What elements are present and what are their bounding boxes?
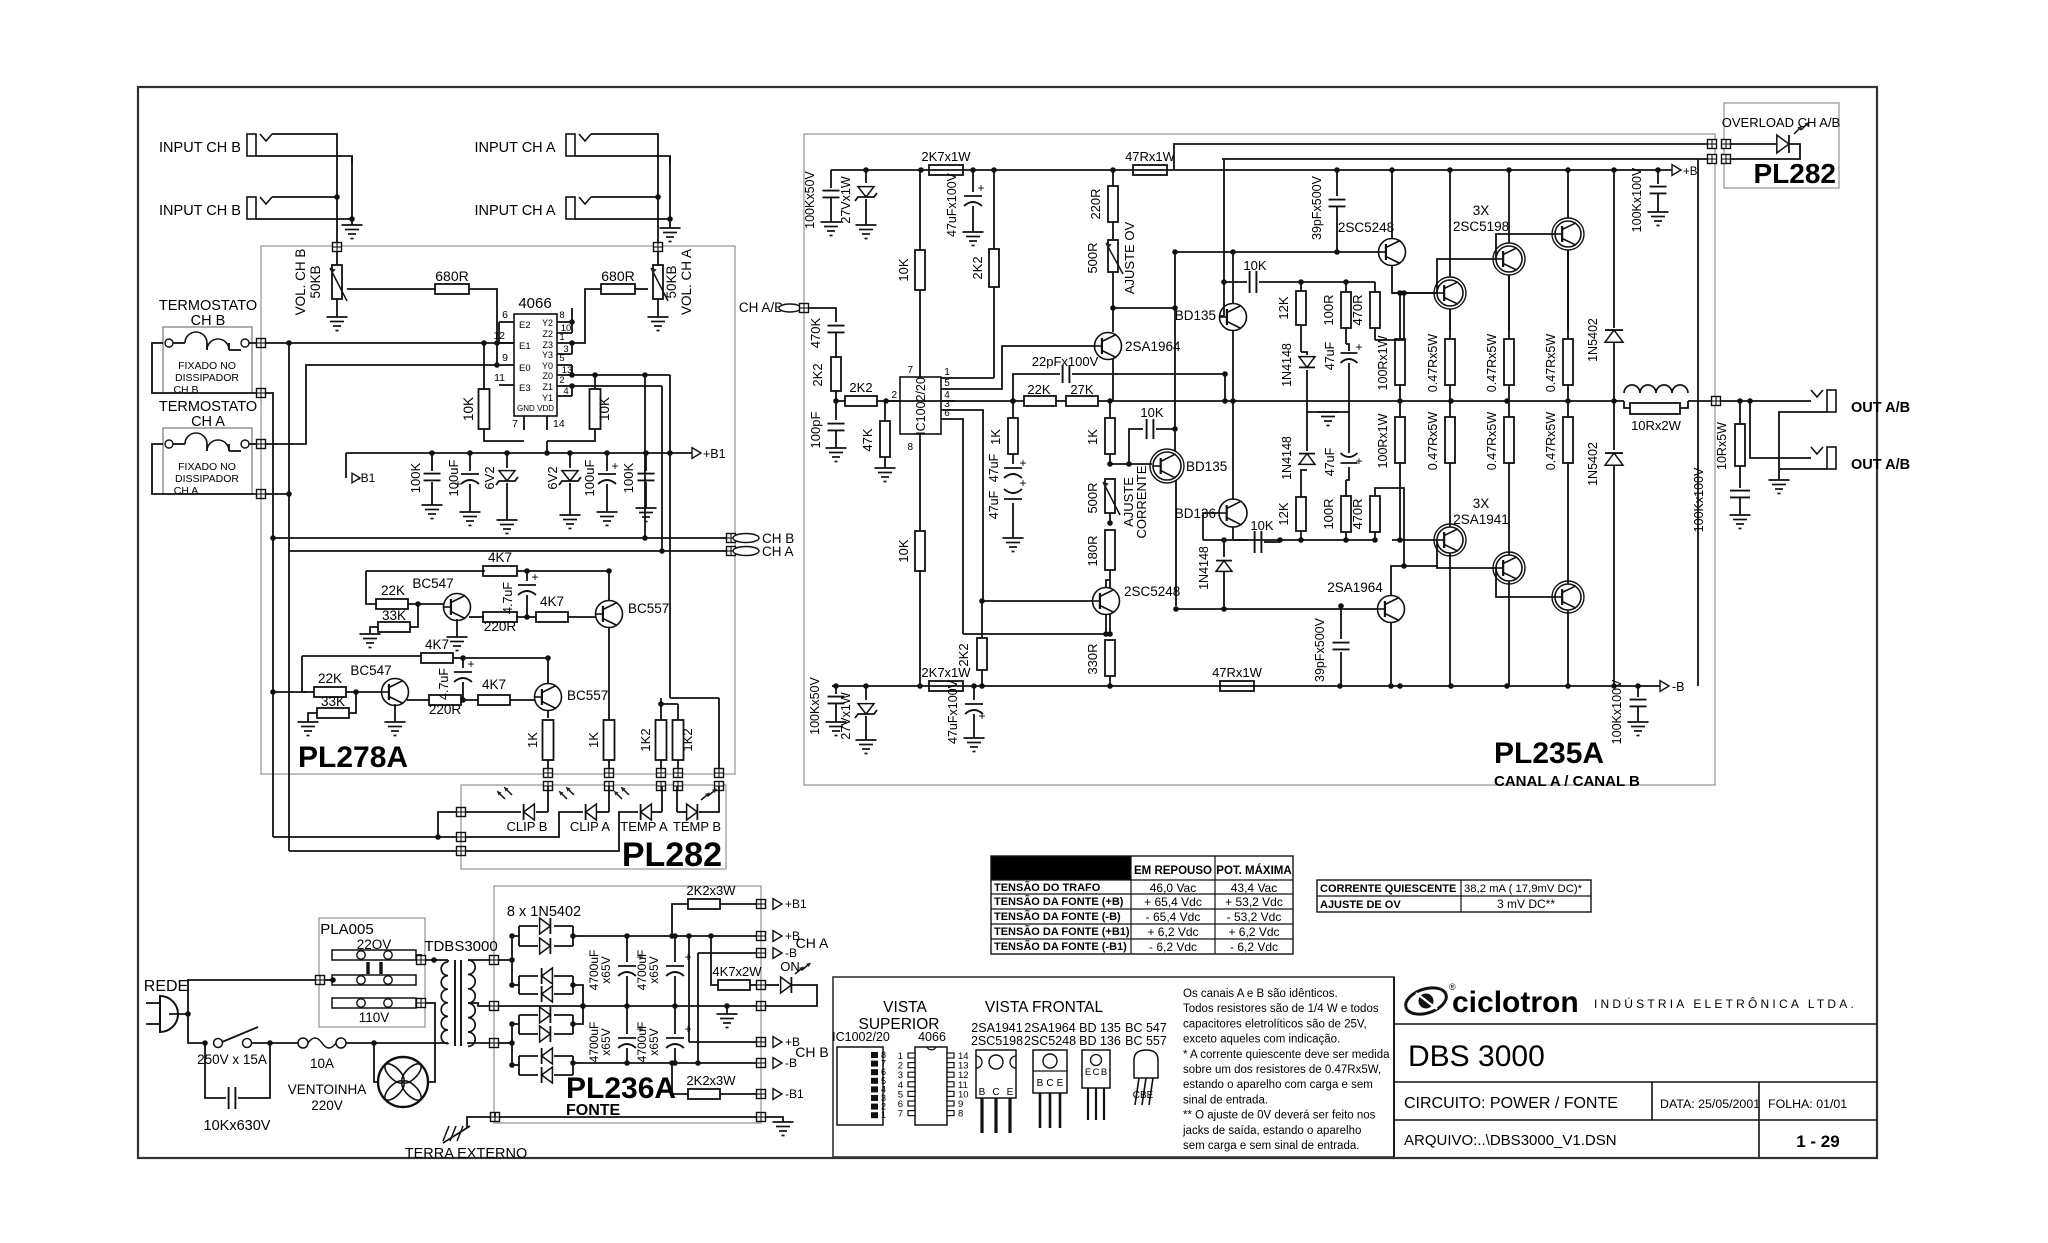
- wire 308 row: [1113, 307, 1175, 309]
- +B1 rail: [346, 452, 692, 454]
- svg-text:2: 2: [891, 390, 897, 401]
- svg-text:100pF: 100pF: [808, 412, 823, 449]
- svg-text:4066: 4066: [518, 295, 551, 312]
- wire pl282 external: [438, 812, 456, 837]
- svg-text:8: 8: [559, 310, 564, 321]
- svg-text:CBE: CBE: [1133, 1090, 1154, 1101]
- resistor 1K2 col3: [660, 698, 662, 720]
- svg-text:2SC5248: 2SC5248: [1124, 584, 1180, 599]
- svg-text:46,0 Vac: 46,0 Vac: [1150, 881, 1196, 895]
- wire overload sense upper: [1174, 144, 1707, 170]
- zener 27Vx1W bottom: [865, 686, 867, 700]
- fuse 10A: [270, 1042, 298, 1044]
- svg-text:OUT A/B: OUT A/B: [1851, 457, 1910, 473]
- terminal entering board CHA: [654, 243, 663, 252]
- svg-text:6V2: 6V2: [545, 466, 560, 489]
- svg-text:VENTOINHA: VENTOINHA: [288, 1082, 367, 1097]
- svg-text:TENSÃO DO TRAFO: TENSÃO DO TRAFO: [994, 881, 1101, 894]
- svg-text:C: C: [1046, 1078, 1053, 1089]
- svg-text:+B1: +B1: [785, 897, 807, 911]
- svg-text:+: +: [611, 459, 618, 473]
- svg-text:x65V: x65V: [647, 1028, 661, 1055]
- svg-text:1K: 1K: [525, 732, 540, 748]
- transistor BD135 top: [1220, 304, 1247, 331]
- transistor 2SA1941 #3: [1555, 584, 1581, 610]
- 0V rail: [499, 1005, 757, 1007]
- resistor 4K7x2W: [718, 980, 750, 990]
- terminal CH A: [727, 547, 736, 556]
- svg-text:470K: 470K: [808, 317, 823, 348]
- resistor 33K lower: [349, 692, 356, 713]
- svg-text:1: 1: [559, 332, 564, 343]
- svg-text:50KB: 50KB: [308, 265, 323, 298]
- resistor 1K col2: [608, 718, 610, 720]
- resistor 330R: [1105, 640, 1115, 676]
- capacitor 47uF top: [1341, 352, 1358, 354]
- 4066 bottom pins: [523, 416, 525, 430]
- svg-text:10K: 10K: [1140, 405, 1163, 420]
- svg-text:REDE: REDE: [144, 978, 188, 995]
- ground input CHB: [342, 224, 363, 226]
- resistor 2K2 bottom col: [977, 638, 987, 670]
- svg-text:1K: 1K: [586, 732, 601, 748]
- zener 6V2 right: [569, 453, 571, 468]
- resistor 4K7 lower a: [421, 653, 453, 663]
- svg-text:BD135: BD135: [1186, 459, 1227, 474]
- svg-text:+ 6,2 Vdc: + 6,2 Vdc: [1228, 925, 1279, 939]
- svg-text:+B: +B: [1683, 166, 1698, 178]
- svg-text:B: B: [1037, 1078, 1044, 1089]
- svg-text:capacitores eletrolíticos sã: capacitores eletrolíticos são de 25V,: [1183, 1018, 1367, 1030]
- svg-text:220R: 220R: [429, 702, 462, 717]
- -B bottom rail: [832, 685, 1660, 687]
- svg-text:10K: 10K: [896, 539, 911, 562]
- border frame: [138, 87, 1877, 1158]
- wire CHB net to Q3: [272, 538, 274, 692]
- svg-text:sem carga e sem sinal de entra: sem carga e sem sinal de entrada.: [1183, 1140, 1359, 1152]
- svg-text:2K7x1W: 2K7x1W: [921, 665, 971, 680]
- svg-text:+: +: [977, 181, 984, 195]
- capacitor 100Kx50V top: [830, 170, 832, 188]
- resistor 2K2x3W top: [688, 899, 720, 909]
- svg-text:-B: -B: [1672, 680, 1685, 694]
- svg-text:VDD: VDD: [537, 404, 554, 413]
- svg-text:Z2: Z2: [542, 329, 553, 339]
- svg-text:- 6,2 Vdc: - 6,2 Vdc: [1230, 940, 1278, 954]
- transistor Q2 BC557 upper: [596, 601, 623, 628]
- svg-text:22K: 22K: [318, 671, 342, 686]
- resistor 100R bottom: [1341, 496, 1351, 532]
- capacitor 47uF bottom: [1341, 462, 1358, 464]
- svg-text:0.47Rx5W: 0.47Rx5W: [1426, 412, 1440, 471]
- svg-text:POT. MÁXIMA: POT. MÁXIMA: [1216, 864, 1291, 877]
- svg-text:PL282: PL282: [622, 836, 722, 874]
- svg-text:OUT A/B: OUT A/B: [1851, 400, 1910, 416]
- wire terra externo: [494, 1112, 496, 1117]
- resistor 220R lower: [407, 699, 429, 701]
- svg-text:VOL. CH A: VOL. CH A: [679, 249, 694, 315]
- svg-text:50KB: 50KB: [664, 265, 679, 298]
- resistor 470R top: [1370, 292, 1380, 328]
- svg-text:680R: 680R: [601, 268, 634, 284]
- svg-text:22pFx100V: 22pFx100V: [1032, 354, 1099, 369]
- svg-text:+B1: +B1: [703, 447, 726, 461]
- wire y634: [963, 633, 1110, 635]
- capacitor 100pF: [835, 401, 837, 420]
- svg-text:TDBS3000: TDBS3000: [424, 938, 497, 955]
- capacitor 39pFx500V top: [1336, 170, 1338, 196]
- svg-text:100Kx100V: 100Kx100V: [1692, 467, 1706, 532]
- PL278A board outline: [261, 246, 735, 774]
- wire fan left: [374, 1043, 378, 1082]
- svg-text:INPUT CH B: INPUT CH B: [159, 203, 241, 219]
- svg-text:27Vx1W: 27Vx1W: [839, 692, 853, 739]
- resistor 1K left col: [1008, 418, 1018, 454]
- wire output bases bottom: [1437, 540, 1496, 568]
- svg-text:1N4148: 1N4148: [1280, 436, 1294, 480]
- svg-text:VISTA FRONTAL: VISTA FRONTAL: [985, 999, 1104, 1016]
- svg-text:1N5402: 1N5402: [1586, 442, 1600, 486]
- svg-text:10K: 10K: [461, 397, 476, 421]
- svg-text:100uF: 100uF: [582, 460, 597, 497]
- svg-text:BC 557: BC 557: [1125, 1034, 1167, 1048]
- svg-text:100K: 100K: [621, 462, 636, 493]
- resistor 2K2 top col: [989, 249, 999, 287]
- resistor 1K col1: [543, 720, 554, 760]
- svg-text:5: 5: [559, 353, 564, 364]
- capacitor 39pFx500V bottom: [1340, 606, 1342, 639]
- diode bridge 8x1N5402: [519, 925, 538, 927]
- svg-text:10K: 10K: [597, 397, 612, 421]
- resistor 470R bottom: [1370, 496, 1380, 532]
- transistor BD136 bottom: [1219, 499, 1247, 527]
- svg-text:100Rx1W: 100Rx1W: [1376, 335, 1390, 390]
- thermostat CHB wires: [249, 342, 257, 344]
- transistor 2SA1964 top: [1095, 333, 1122, 360]
- bridge joins: [518, 926, 520, 946]
- svg-text:B: B: [1101, 1067, 1107, 1078]
- svg-text:AJUSTE OV: AJUSTE OV: [1122, 222, 1137, 295]
- op-amp U1 4066 quad switch: [514, 314, 557, 416]
- wire top driver row: [1259, 281, 1375, 283]
- resistor 680R right: [634, 288, 648, 290]
- svg-text:12K: 12K: [1276, 502, 1291, 525]
- svg-text:0.47Rx5W: 0.47Rx5W: [1544, 334, 1558, 393]
- svg-text:+: +: [1019, 476, 1026, 490]
- wire pin6 down: [955, 419, 963, 634]
- svg-text:11: 11: [494, 372, 505, 384]
- resistor 33K upper: [410, 604, 418, 627]
- capacitor 100Kx100V bottom right: [1637, 686, 1639, 697]
- PL282 overload board outline top-right: [1724, 103, 1839, 188]
- zener 27Vx1W top: [865, 170, 867, 183]
- svg-text:FONTE: FONTE: [566, 1102, 621, 1119]
- svg-text:330R: 330R: [1085, 643, 1100, 674]
- jack INPUT CH A: [566, 197, 575, 219]
- svg-text:2K2: 2K2: [849, 380, 872, 395]
- svg-text:10A: 10A: [310, 1056, 334, 1071]
- capacitor 100K right: [645, 453, 647, 471]
- svg-text:100Kx100V: 100Kx100V: [1610, 679, 1624, 744]
- svg-text:Y0: Y0: [542, 361, 553, 371]
- svg-text:7: 7: [907, 365, 913, 376]
- svg-text:PL282: PL282: [1754, 158, 1837, 189]
- inductor L1: [1624, 385, 1688, 393]
- capacitor 10K upper-mid: [1129, 429, 1143, 464]
- svg-text:Y1: Y1: [542, 393, 553, 403]
- svg-text:TENSÃO DA FONTE (-B1): TENSÃO DA FONTE (-B1): [994, 940, 1127, 953]
- svg-text:FIXADO NO: FIXADO NO: [178, 360, 236, 372]
- resistor 1K2 col4: [677, 704, 679, 720]
- terminal out: [1712, 397, 1721, 406]
- capacitor 4700uF c1: [626, 936, 628, 962]
- title block: [1393, 977, 1395, 1157]
- svg-text:2K2x3W: 2K2x3W: [686, 883, 736, 898]
- wire CHA line: [289, 550, 727, 552]
- svg-text:7: 7: [898, 1109, 903, 1120]
- resistor 100Rx1W top col: [1395, 339, 1405, 385]
- resistor 10Rx2W: [1630, 403, 1680, 414]
- svg-text:2SC5248: 2SC5248: [1338, 220, 1394, 235]
- svg-text:C: C: [1093, 1067, 1100, 1078]
- resistor 2K2 input vertical: [831, 357, 841, 391]
- svg-text:Z0: Z0: [542, 371, 553, 381]
- svg-text:TENSÃO DA FONTE (-B): TENSÃO DA FONTE (-B): [994, 910, 1121, 923]
- resistor 0.47Rx5W top c1: [1445, 339, 1455, 385]
- jack INPUT CH A: [566, 134, 575, 156]
- svg-text:BC547: BC547: [412, 576, 453, 591]
- ground Q3 emitter: [394, 704, 396, 722]
- svg-text:IC1002/20: IC1002/20: [914, 377, 928, 435]
- svg-text:2SC5198: 2SC5198: [971, 1034, 1023, 1048]
- LED CLIP B: [547, 786, 549, 812]
- resistor 2K7x1W bottom: [929, 681, 963, 691]
- wire 220V tap to transformer: [416, 955, 421, 957]
- svg-text:INPUT CH B: INPUT CH B: [159, 140, 241, 156]
- svg-text:CORRENTE QUIESCENTE: CORRENTE QUIESCENTE: [1320, 883, 1456, 895]
- mid output rail: [886, 400, 1024, 402]
- terminal pair TEMP B col: [718, 698, 720, 770]
- svg-text:3 mV DC**: 3 mV DC**: [1497, 897, 1555, 911]
- svg-text:1N4148: 1N4148: [1197, 546, 1211, 590]
- wire jack CHB 2: [272, 196, 337, 198]
- resistor 0.47Rx5W bot c3: [1563, 417, 1573, 463]
- pot 500R AJUSTE CORRENTE: [1105, 479, 1115, 513]
- svg-text:100Kx100V: 100Kx100V: [1630, 167, 1644, 232]
- AC plug: [160, 996, 178, 1032]
- svg-text:47uFx100V: 47uFx100V: [946, 679, 960, 744]
- transistor 2SC5198 #1: [1437, 280, 1463, 306]
- table tensao: [991, 856, 1131, 880]
- svg-text:VOL. CH B: VOL. CH B: [293, 249, 308, 316]
- svg-text:CORRENTE: CORRENTE: [1134, 465, 1149, 538]
- terminal -B cha: [698, 952, 757, 954]
- diode 1N4148 bottom col: [1223, 540, 1225, 557]
- switch 250V x 15A: [214, 1039, 223, 1048]
- svg-text:BC547: BC547: [350, 663, 391, 678]
- svg-text:2K2: 2K2: [956, 643, 971, 666]
- terminal ground pl236: [491, 1113, 500, 1122]
- svg-text:100R: 100R: [1321, 294, 1336, 325]
- thermostat CHA wires: [249, 443, 257, 445]
- svg-text:E: E: [1007, 1087, 1014, 1098]
- svg-text:E: E: [1057, 1078, 1064, 1089]
- svg-text:1K2: 1K2: [680, 728, 695, 751]
- svg-text:180R: 180R: [1085, 535, 1100, 566]
- wire pin3 down: [955, 410, 983, 600]
- ground Q1 emitter upper: [456, 619, 458, 637]
- svg-text:+: +: [684, 1022, 691, 1036]
- svg-text:CIRCUITO: POWER / FONTE: CIRCUITO: POWER / FONTE: [1404, 1095, 1618, 1112]
- resistor 27K feedback: [1066, 396, 1098, 406]
- svg-text:2SC5198: 2SC5198: [1453, 219, 1509, 234]
- svg-text:220R: 220R: [1088, 188, 1103, 219]
- svg-text:DISSIPADOR: DISSIPADOR: [175, 372, 239, 384]
- svg-text:DATA: 25/05/2001: DATA: 25/05/2001: [1660, 1097, 1760, 1111]
- wire pin1 to 2K2: [955, 377, 994, 379]
- capacitor 100Kx100V top right: [1657, 170, 1659, 184]
- svg-text:PL236A: PL236A: [566, 1072, 676, 1105]
- wire CHB line: [273, 537, 727, 539]
- resistor 47K: [880, 421, 890, 457]
- svg-text:x65V: x65V: [599, 1028, 613, 1055]
- resistor 2K7x1W top: [929, 165, 963, 175]
- svg-text:220V: 220V: [311, 1098, 343, 1113]
- svg-text:+: +: [1019, 456, 1026, 470]
- resistor 2K2x3W bottom: [688, 1089, 720, 1099]
- ground mid 47uF: [1307, 411, 1349, 413]
- svg-text:BD 135: BD 135: [1079, 1021, 1121, 1035]
- wire bottom driver row: [1203, 539, 1280, 541]
- svg-text:+: +: [1355, 340, 1362, 354]
- wire output bases top: [1437, 259, 1496, 293]
- resistor 0.47Rx5W bot c1: [1445, 417, 1455, 463]
- svg-text:+: +: [1355, 454, 1362, 468]
- resistor 0.47Rx5W top c2: [1504, 339, 1514, 385]
- svg-text:3X: 3X: [1473, 496, 1490, 511]
- svg-text:1K: 1K: [1085, 429, 1100, 445]
- svg-text:47uF: 47uF: [1323, 447, 1337, 476]
- resistor 220R upper: [469, 616, 484, 618]
- svg-text:4K7: 4K7: [540, 594, 564, 609]
- svg-text:39pFx500V: 39pFx500V: [1313, 617, 1327, 682]
- capacitor 470K input: [828, 325, 845, 327]
- svg-text:8 x 1N5402: 8 x 1N5402: [507, 904, 581, 920]
- -B1 stub: [345, 453, 347, 478]
- svg-text:6: 6: [502, 309, 508, 321]
- svg-text:+: +: [531, 570, 538, 584]
- capacitor 4700uF c4: [674, 1006, 676, 1034]
- svg-text:47uF: 47uF: [1323, 341, 1337, 370]
- svg-text:CLIP B: CLIP B: [507, 819, 548, 834]
- svg-text:1: 1: [944, 367, 950, 378]
- svg-text:0.47Rx5W: 0.47Rx5W: [1485, 334, 1499, 393]
- svg-text:22K: 22K: [381, 583, 405, 598]
- svg-text:IC1002/20: IC1002/20: [832, 1030, 890, 1044]
- resistor 0.47Rx5W bot c2: [1504, 417, 1514, 463]
- svg-text:2K2x3W: 2K2x3W: [686, 1073, 736, 1088]
- svg-text:22K: 22K: [1027, 382, 1050, 397]
- terminal entering board CHB: [333, 243, 342, 252]
- ciclotron logo: [1402, 983, 1449, 1019]
- resistor 22K upper: [376, 599, 408, 609]
- svg-text:47uF: 47uF: [987, 490, 1001, 519]
- svg-text:1: 1: [881, 1110, 886, 1120]
- svg-text:+: +: [978, 709, 985, 723]
- resistor 680R left: [347, 288, 436, 290]
- transformer secondary taps: [468, 959, 489, 961]
- svg-text:CLIP A: CLIP A: [570, 819, 611, 834]
- capacitor 100Kx100V output: [1730, 490, 1750, 492]
- svg-text:39pFx500V: 39pFx500V: [1310, 175, 1324, 240]
- PL236A board outline (power supply): [494, 886, 761, 1123]
- svg-text:220R: 220R: [484, 619, 517, 634]
- wire 110V tap: [417, 999, 426, 1008]
- svg-text:10Rx5W: 10Rx5W: [1715, 422, 1729, 470]
- svg-text:CH A: CH A: [762, 544, 794, 559]
- svg-text:4.7uF: 4.7uF: [501, 582, 515, 614]
- svg-text:+: +: [467, 657, 474, 671]
- svg-text:100R: 100R: [1321, 498, 1336, 529]
- svg-text:100Rx1W: 100Rx1W: [1376, 413, 1390, 468]
- wire out sleeves: [1779, 412, 1827, 480]
- svg-text:4K7: 4K7: [488, 550, 512, 565]
- svg-text:TERMOSTATO: TERMOSTATO: [159, 298, 257, 314]
- svg-text:2SA1964: 2SA1964: [1024, 1021, 1075, 1035]
- resistor 4K7 lower b: [478, 695, 510, 705]
- svg-text:2SC5248: 2SC5248: [1024, 1034, 1076, 1048]
- svg-text:2SA1964: 2SA1964: [1327, 580, 1383, 595]
- svg-text:CH B: CH B: [173, 384, 198, 396]
- pot 500R AJUSTE OV: [1108, 240, 1118, 272]
- svg-text:Y2: Y2: [542, 318, 553, 328]
- wire jack CHA 2: [591, 196, 658, 198]
- diode 1N4148 top col: [1300, 282, 1302, 291]
- svg-text:- 6,2 Vdc: - 6,2 Vdc: [1149, 940, 1197, 954]
- terminal +B chb: [757, 1038, 766, 1047]
- wire top loop lower: [302, 656, 307, 692]
- svg-text:+ 65,4 Vdc: + 65,4 Vdc: [1144, 895, 1202, 909]
- svg-text:EM REPOUSO: EM REPOUSO: [1134, 865, 1212, 877]
- svg-text:FOLHA: 01/01: FOLHA: 01/01: [1768, 1097, 1847, 1111]
- svg-text:47uF: 47uF: [987, 453, 1001, 482]
- resistor 100Rx1W bottom col: [1395, 417, 1405, 463]
- resistor 180R: [1105, 530, 1115, 570]
- transistor 2SC5198 #2: [1496, 246, 1522, 272]
- wire top loop upper: [366, 571, 377, 604]
- resistor 4K7 upper b: [536, 612, 568, 622]
- svg-text:Todos resistores são de 1/4 W: Todos resistores são de 1/4 W e todos: [1183, 1003, 1379, 1015]
- svg-text:6V2: 6V2: [482, 466, 497, 489]
- wire pin5 up to driver: [955, 346, 1094, 389]
- 4066 left pins: [499, 321, 514, 323]
- ground 0V: [726, 1006, 728, 1014]
- resistor 47Rx1W top: [1133, 165, 1167, 175]
- svg-text:2: 2: [559, 375, 564, 386]
- svg-text:2K7x1W: 2K7x1W: [921, 149, 971, 164]
- resistor 10K bottom col: [915, 531, 925, 571]
- resistor 12K top: [1296, 291, 1306, 325]
- svg-text:14: 14: [553, 418, 565, 430]
- wire plug to selector row: [169, 980, 315, 1014]
- PL282 board outline (indicator board): [461, 785, 726, 869]
- svg-text:BD 136: BD 136: [1079, 1034, 1121, 1048]
- svg-text:C: C: [992, 1087, 999, 1098]
- LED TEMP B: [676, 786, 678, 812]
- resistor 10K right of 4066: [590, 389, 601, 429]
- svg-text:* A corrente quiescente deve s: * A corrente quiescente deve ser medida: [1183, 1049, 1390, 1061]
- svg-text:ARQUIVO:..\DBS3000_V1.DSN: ARQUIVO:..\DBS3000_V1.DSN: [1404, 1132, 1617, 1149]
